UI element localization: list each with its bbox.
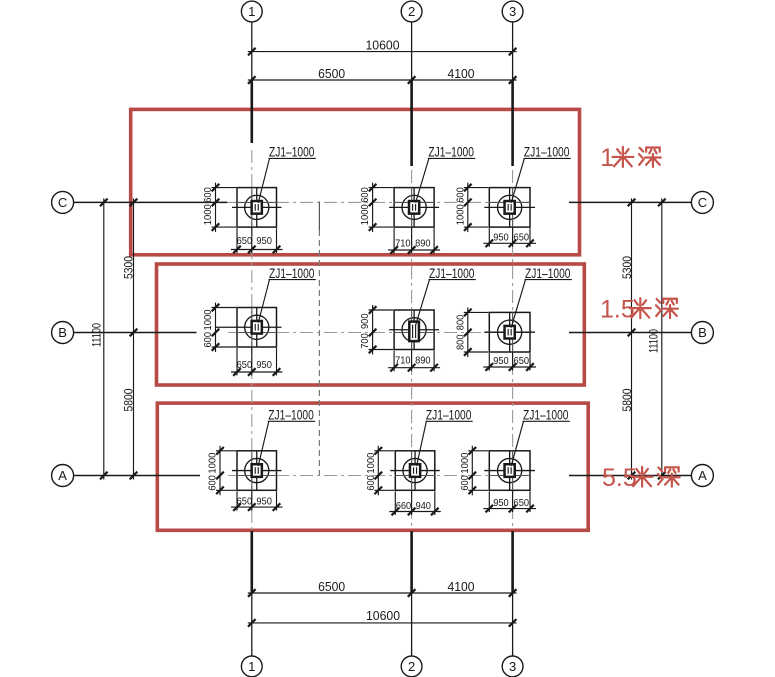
svg-text:ZJ1–1000: ZJ1–1000 bbox=[269, 144, 315, 159]
svg-text:950: 950 bbox=[256, 236, 272, 247]
svg-text:1000: 1000 bbox=[460, 452, 471, 473]
svg-text:650: 650 bbox=[237, 496, 253, 507]
svg-text:600: 600 bbox=[203, 332, 214, 348]
svg-text:710: 710 bbox=[395, 239, 411, 250]
svg-text:900: 900 bbox=[360, 313, 371, 329]
svg-text:ZJ1–1000: ZJ1–1000 bbox=[429, 266, 475, 281]
svg-text:1: 1 bbox=[248, 4, 255, 19]
svg-text:950: 950 bbox=[493, 233, 509, 244]
svg-text:1000: 1000 bbox=[203, 309, 214, 330]
svg-text:3: 3 bbox=[509, 659, 516, 674]
svg-text:1000: 1000 bbox=[366, 452, 377, 473]
svg-text:ZJ1–1000: ZJ1–1000 bbox=[426, 407, 472, 422]
svg-text:600: 600 bbox=[460, 475, 471, 491]
svg-text:800: 800 bbox=[455, 315, 466, 331]
svg-text:ZJ1–1000: ZJ1–1000 bbox=[428, 144, 474, 159]
svg-text:ZJ1–1000: ZJ1–1000 bbox=[269, 266, 315, 281]
svg-text:950: 950 bbox=[256, 496, 272, 507]
svg-text:5800: 5800 bbox=[124, 389, 136, 412]
svg-text:700: 700 bbox=[360, 333, 371, 349]
svg-text:2: 2 bbox=[408, 659, 415, 674]
svg-text:5800: 5800 bbox=[622, 389, 634, 412]
svg-text:650: 650 bbox=[237, 236, 253, 247]
svg-text:2: 2 bbox=[408, 4, 415, 19]
svg-text:600: 600 bbox=[360, 187, 371, 203]
svg-text:600: 600 bbox=[203, 187, 214, 203]
svg-text:660: 660 bbox=[396, 501, 412, 512]
svg-text:650: 650 bbox=[514, 498, 530, 509]
svg-text:650: 650 bbox=[514, 233, 530, 244]
svg-text:950: 950 bbox=[493, 356, 509, 367]
svg-text:ZJ1–1000: ZJ1–1000 bbox=[268, 407, 314, 422]
svg-text:600: 600 bbox=[366, 475, 377, 491]
svg-text:5300: 5300 bbox=[124, 256, 136, 279]
svg-text:ZJ1–1000: ZJ1–1000 bbox=[524, 144, 570, 159]
svg-text:B: B bbox=[58, 325, 67, 340]
svg-text:950: 950 bbox=[256, 360, 272, 371]
svg-text:11100: 11100 bbox=[649, 329, 661, 353]
svg-text:890: 890 bbox=[415, 239, 431, 250]
svg-text:1000: 1000 bbox=[203, 204, 214, 225]
svg-text:A: A bbox=[698, 468, 707, 483]
svg-text:890: 890 bbox=[415, 356, 431, 367]
svg-text:950: 950 bbox=[493, 498, 509, 509]
svg-text:940: 940 bbox=[415, 501, 431, 512]
svg-text:10600: 10600 bbox=[366, 38, 400, 53]
svg-text:600: 600 bbox=[208, 475, 219, 491]
svg-text:6500: 6500 bbox=[318, 579, 345, 594]
svg-text:10600: 10600 bbox=[366, 608, 400, 623]
svg-text:710: 710 bbox=[395, 356, 411, 367]
svg-text:5.5: 5.5 bbox=[602, 464, 637, 492]
svg-text:6500: 6500 bbox=[318, 66, 345, 81]
svg-text:1.5: 1.5 bbox=[600, 296, 635, 324]
svg-text:650: 650 bbox=[514, 356, 530, 367]
svg-text:1: 1 bbox=[248, 659, 255, 674]
svg-text:5300: 5300 bbox=[622, 256, 634, 279]
svg-text:B: B bbox=[698, 325, 707, 340]
svg-text:3: 3 bbox=[509, 4, 516, 19]
svg-text:ZJ1–1000: ZJ1–1000 bbox=[523, 407, 569, 422]
svg-text:11100: 11100 bbox=[91, 323, 103, 347]
svg-text:600: 600 bbox=[455, 187, 466, 203]
svg-text:C: C bbox=[58, 195, 67, 210]
svg-text:1000: 1000 bbox=[360, 204, 371, 225]
svg-text:800: 800 bbox=[455, 334, 466, 350]
svg-text:ZJ1–1000: ZJ1–1000 bbox=[525, 266, 571, 281]
svg-text:C: C bbox=[698, 195, 707, 210]
svg-text:1000: 1000 bbox=[208, 452, 219, 473]
svg-text:A: A bbox=[58, 468, 67, 483]
svg-text:1000: 1000 bbox=[455, 204, 466, 225]
svg-text:4100: 4100 bbox=[448, 579, 475, 594]
svg-text:4100: 4100 bbox=[448, 66, 475, 81]
svg-text:650: 650 bbox=[237, 360, 253, 371]
